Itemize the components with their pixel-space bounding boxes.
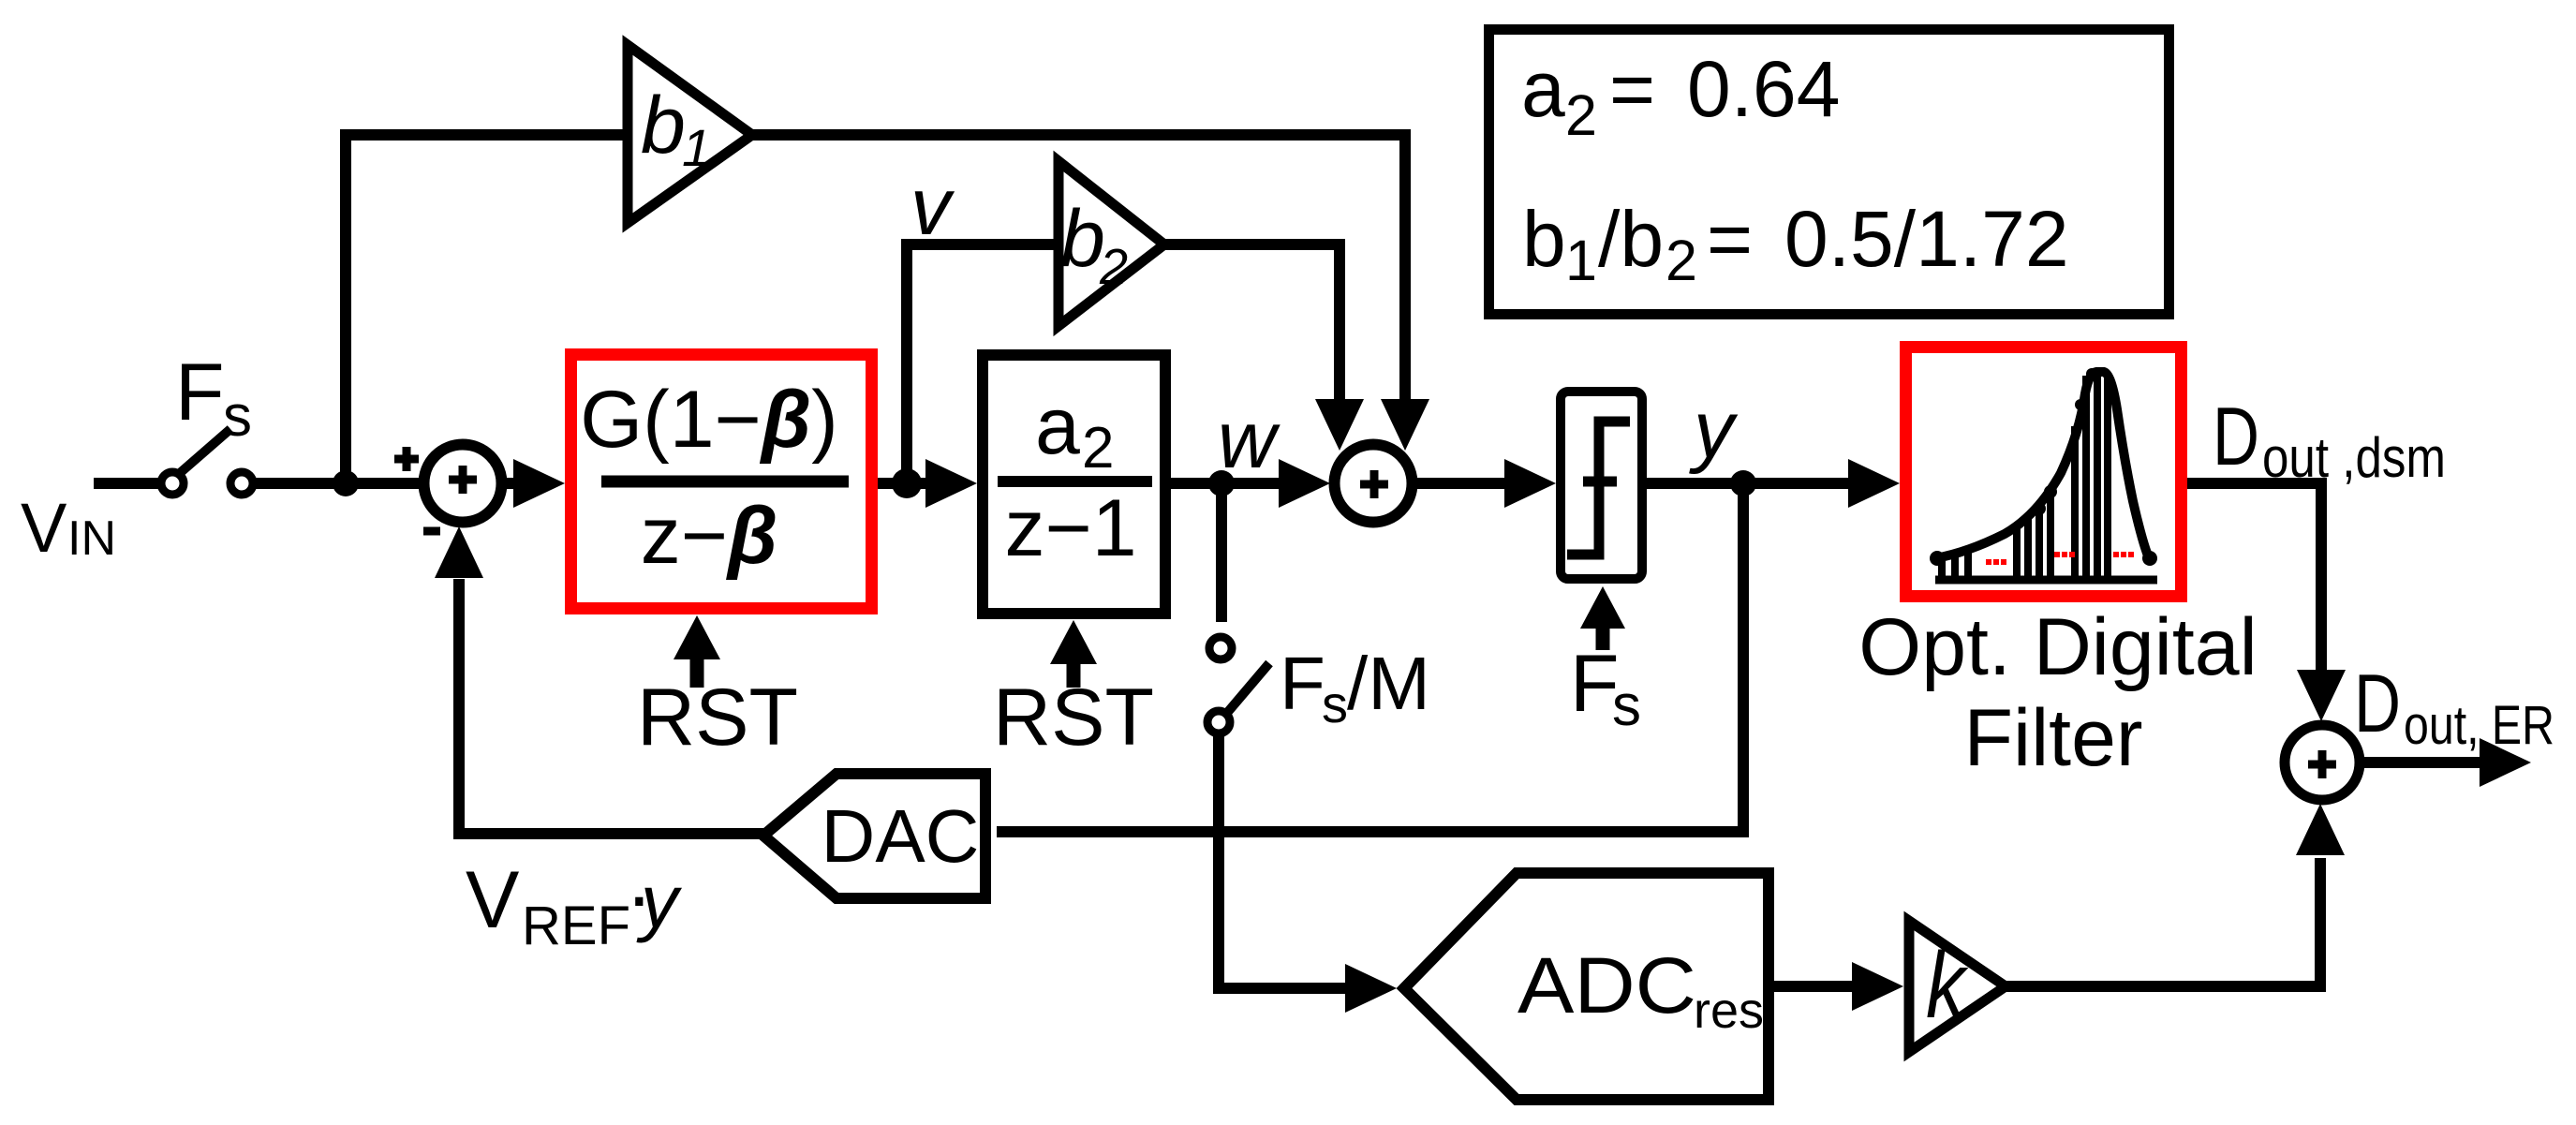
svg-text:=: = — [1707, 195, 1753, 283]
svg-text:a: a — [1521, 45, 1565, 133]
svg-text:0.5/1.72: 0.5/1.72 — [1784, 195, 2069, 283]
svg-text:/b: /b — [1598, 195, 1664, 283]
svg-text:z−1: z−1 — [1004, 483, 1136, 573]
svg-text:b: b — [1060, 194, 1105, 284]
svg-text:F: F — [175, 348, 225, 437]
svg-text:RST: RST — [637, 673, 798, 762]
svg-text:w: w — [1218, 395, 1281, 485]
svg-text:ADC: ADC — [1517, 941, 1696, 1029]
svg-text:2: 2 — [1099, 239, 1128, 295]
svg-text:s: s — [1322, 674, 1348, 733]
svg-text:k: k — [1926, 933, 1969, 1038]
svg-text:V: V — [21, 489, 67, 567]
svg-text:a: a — [1035, 381, 1080, 471]
svg-text:y: y — [636, 860, 683, 943]
svg-text:Opt. Digital: Opt. Digital — [1858, 602, 2257, 692]
svg-text:F: F — [1280, 642, 1325, 725]
svg-text:1: 1 — [1565, 229, 1597, 292]
svg-text:b: b — [1522, 195, 1566, 283]
svg-text:Filter: Filter — [1963, 693, 2142, 783]
svg-text:/M: /M — [1347, 642, 1430, 725]
svg-text:s: s — [1612, 674, 1641, 738]
svg-text:D: D — [2354, 657, 2401, 749]
svg-text:RST: RST — [993, 673, 1154, 762]
svg-text:DAC: DAC — [822, 794, 980, 878]
svg-text:2: 2 — [1082, 416, 1114, 481]
svg-text:2: 2 — [1565, 83, 1597, 147]
svg-text:V: V — [466, 855, 519, 945]
svg-text:D: D — [2213, 390, 2259, 482]
svg-text:REF: REF — [522, 896, 630, 956]
svg-text:v: v — [910, 162, 955, 252]
svg-text:out, ER: out, ER — [2404, 695, 2554, 756]
svg-text:0.64: 0.64 — [1687, 45, 1841, 133]
svg-text:s: s — [223, 384, 252, 449]
svg-text:2: 2 — [1666, 229, 1697, 292]
svg-text:G(1−β): G(1−β) — [580, 375, 838, 465]
svg-text:=: = — [1609, 45, 1655, 133]
svg-text:1: 1 — [682, 118, 711, 177]
svg-text:y: y — [1689, 385, 1739, 475]
svg-text:out ,dsm: out ,dsm — [2262, 426, 2446, 489]
svg-text:z−β: z−β — [641, 491, 778, 581]
svg-text:res: res — [1694, 983, 1764, 1039]
svg-text:b: b — [641, 81, 686, 170]
svg-text:IN: IN — [67, 511, 116, 566]
